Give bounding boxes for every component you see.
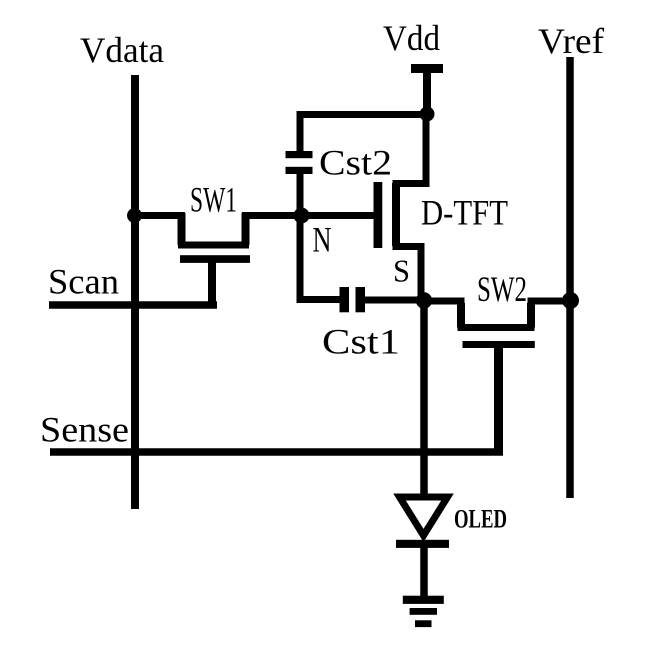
svg-text:Cst1: Cst1 bbox=[322, 322, 400, 362]
svg-text:Cst2: Cst2 bbox=[319, 143, 392, 183]
svg-text:SW2: SW2 bbox=[477, 269, 527, 309]
svg-text:Vdata: Vdata bbox=[80, 30, 164, 70]
svg-text:SW1: SW1 bbox=[190, 180, 237, 220]
svg-text:S: S bbox=[393, 253, 410, 289]
svg-text:D-TFT: D-TFT bbox=[421, 193, 508, 233]
svg-text:Sense: Sense bbox=[40, 410, 129, 450]
svg-text:Vref: Vref bbox=[538, 21, 604, 61]
svg-text:Vdd: Vdd bbox=[383, 18, 440, 58]
svg-text:N: N bbox=[313, 220, 332, 260]
svg-text:Scan: Scan bbox=[48, 262, 119, 302]
svg-text:OLED: OLED bbox=[454, 505, 507, 534]
